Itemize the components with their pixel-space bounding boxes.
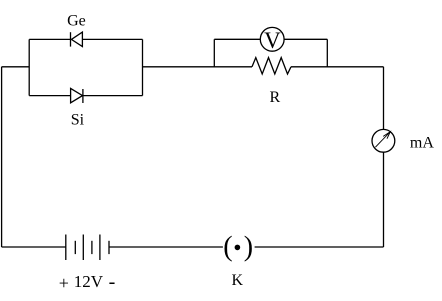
wire: diode box right edge <box>142 39 144 95</box>
svg-text:): ) <box>244 231 253 262</box>
wire: right vertical upper segment <box>383 67 385 130</box>
milliammeter M1 circle <box>372 129 395 152</box>
wire: right vertical lower segment <box>383 152 385 247</box>
wire: voltmeter branch top-left segment <box>214 38 260 40</box>
battery B1 plate long (positive, left) <box>65 235 67 261</box>
wire: bottom branch right segment <box>83 95 143 97</box>
svg-text:Ge: Ge <box>67 13 86 30</box>
milliammeter M1 needle <box>375 132 390 148</box>
battery B1 plate long <box>82 235 84 261</box>
svg-text:(: ( <box>223 231 232 262</box>
wire: top-left horizontal to diode box <box>2 66 30 68</box>
diode D2 Si (cathode bar) <box>82 89 84 103</box>
battery B1 plate short (negative, right) <box>108 241 110 254</box>
wire: bottom horizontal from battery to left corner <box>2 246 66 248</box>
diode D1 Ge (cathode bar) <box>70 32 72 46</box>
wire: main horizontal from box to resistor <box>143 66 253 68</box>
wire: bottom branch left segment <box>29 95 70 97</box>
diode D1 Ge (triangle pointing left) <box>71 32 82 47</box>
voltmeter V1 circle <box>260 27 284 51</box>
wire: voltmeter branch right vertical <box>326 39 328 67</box>
resistor R zigzag <box>252 58 291 74</box>
battery B1 plate short <box>91 241 93 254</box>
svg-text:V: V <box>264 28 281 53</box>
wire: diode box left edge <box>28 39 30 95</box>
battery B1 plate short <box>74 241 76 254</box>
svg-text:R: R <box>269 89 280 106</box>
wire: bottom horizontal from key to battery <box>109 246 223 248</box>
svg-text:+: + <box>59 273 69 293</box>
diode D2 Si (triangle pointing right) <box>71 88 83 102</box>
svg-text:-: - <box>109 271 116 293</box>
svg-text:12V: 12V <box>74 272 104 291</box>
key K symbol: center dot <box>235 245 241 251</box>
svg-text:mA: mA <box>410 134 434 151</box>
milliammeter M1 needle arrowhead <box>383 132 390 139</box>
wire: main horizontal from resistor to right corner <box>291 66 384 68</box>
wire: top branch left segment <box>29 38 70 40</box>
wire: bottom horizontal from right corner to key <box>255 246 384 248</box>
wire: voltmeter branch top-right segment <box>284 38 327 40</box>
wire: top branch right segment <box>82 38 142 40</box>
battery B1 plate long <box>99 235 101 261</box>
wire: left vertical side <box>1 67 3 247</box>
svg-text:K: K <box>232 272 244 289</box>
svg-text:Si: Si <box>71 111 85 128</box>
wire: voltmeter branch left vertical <box>213 39 215 67</box>
